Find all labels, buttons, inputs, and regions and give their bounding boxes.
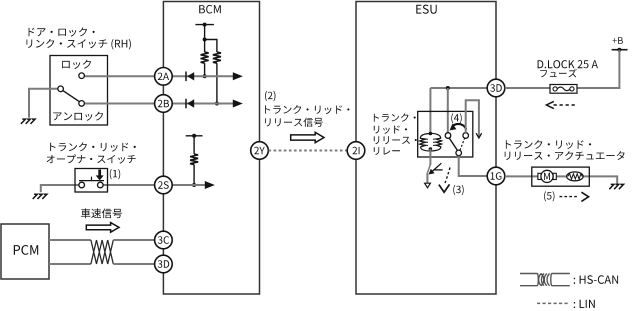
contact: relay right bbox=[463, 133, 469, 139]
twisted pair (HS-CAN) bbox=[91, 240, 113, 264]
driver arrow with bar bbox=[432, 163, 442, 172]
legend label: HS-CAN bbox=[574, 275, 618, 284]
label: D.LOCK 25 A fuse bbox=[538, 60, 598, 68]
wire: 1G to actuator bbox=[505, 175, 538, 177]
label (1) bbox=[110, 169, 120, 179]
wire: relay right contact loop bbox=[466, 100, 479, 137]
diode D2 bbox=[185, 99, 187, 109]
trunk lid release relay box bbox=[418, 111, 473, 157]
junction on 2B line bbox=[215, 102, 219, 106]
push arrow (1) bbox=[98, 170, 101, 176]
door lock link switch box bbox=[50, 56, 108, 126]
ground (opener switch) bbox=[33, 194, 47, 199]
wire: PCM to twist (CAN H) bbox=[49, 239, 91, 241]
terminal 2B (BCM) bbox=[155, 95, 173, 113]
label: BCM bbox=[199, 5, 221, 14]
wire: 3D to relay bbox=[430, 87, 487, 89]
signal arrow on 2A line bbox=[233, 72, 243, 80]
label: door lock link switch (RH) bbox=[29, 27, 95, 36]
wire: opener switch to ground bbox=[41, 185, 79, 192]
wire: actuator to ground bbox=[583, 176, 617, 184]
label: unlock bbox=[53, 112, 103, 121]
contact: relay common bbox=[456, 150, 462, 156]
+B supply bar bbox=[612, 49, 628, 51]
contact: opener right bbox=[98, 182, 104, 188]
terminal 2A (BCM) bbox=[155, 68, 173, 86]
actuator resistor element bbox=[567, 172, 584, 181]
wire: 2Y to 2I (LIN, dashed) bbox=[269, 150, 348, 152]
wire: lock contact to 2A bbox=[85, 75, 155, 77]
label (4) bbox=[451, 113, 461, 123]
wire: 2A line bbox=[172, 75, 233, 77]
terminal 1G (ESU) bbox=[487, 167, 505, 185]
wire: coil to driver bbox=[429, 149, 431, 165]
wire: twist to 3D bbox=[113, 263, 154, 265]
wire: switch common to ground bbox=[29, 89, 58, 118]
legend label: LIN bbox=[574, 300, 595, 308]
PCM box bbox=[1, 224, 49, 279]
terminal 2Y (BCM) bbox=[251, 142, 269, 160]
junction (relay contact feed) bbox=[446, 86, 450, 90]
internal supply bar (2S) bbox=[186, 135, 203, 137]
wire R1 to 2A line bbox=[204, 63, 206, 76]
switch bar bbox=[79, 180, 104, 182]
ground (door lock link switch) bbox=[21, 119, 35, 124]
wire: +B to fuse bbox=[577, 50, 619, 88]
wire: 2B line bbox=[172, 103, 233, 105]
dashed arrow (5) bbox=[560, 196, 580, 198]
contact: relay left bbox=[445, 133, 451, 139]
relay contact lever (closed side) bbox=[449, 138, 457, 150]
label: lock bbox=[62, 60, 91, 69]
resistor R1 bbox=[201, 52, 209, 63]
block arrow: trunk lid release signal bbox=[291, 132, 324, 142]
label (3) bbox=[453, 185, 463, 195]
signal arrow on 2S line bbox=[205, 181, 215, 189]
label: trunk lid release actuator bbox=[506, 140, 591, 149]
resistor R3 bbox=[190, 154, 198, 165]
signal arrow on 2B line bbox=[233, 100, 243, 108]
wire: driver to open triangle bbox=[426, 174, 428, 184]
wire: PCM to twist (CAN L) bbox=[49, 263, 91, 265]
label: vehicle speed signal bbox=[81, 208, 122, 218]
label: trunk lid opener switch bbox=[50, 142, 136, 151]
terminal 3C (BCM) bbox=[155, 231, 173, 249]
junction node bbox=[203, 38, 207, 42]
block arrow: vehicle speed signal bbox=[86, 223, 119, 233]
junction on 2S line bbox=[192, 183, 196, 187]
legend: HS-CAN twisted pair symbol bbox=[520, 274, 570, 286]
wire: opener switch to 2S bbox=[103, 184, 154, 186]
contact: opener left bbox=[79, 182, 85, 188]
relay coil bbox=[420, 133, 442, 151]
relay contact lever (alternate, dashed) bbox=[460, 138, 465, 150]
switch lever (common to unlock) bbox=[63, 91, 80, 102]
ground (actuator) bbox=[609, 184, 623, 189]
wire: down to relay coil bbox=[429, 88, 431, 134]
terminal 3D (BCM) bbox=[155, 255, 173, 273]
fuse F1 bbox=[550, 85, 577, 94]
contact: unlock bbox=[79, 101, 85, 107]
terminal 3D (ESU) bbox=[487, 79, 505, 97]
label: PCM bbox=[14, 245, 38, 255]
wire: motor to resistor bbox=[556, 175, 567, 177]
relay actuation arrow (4) bbox=[453, 124, 466, 130]
internal supply bar (top) bbox=[195, 24, 214, 26]
wire R2 to 2B line bbox=[216, 63, 218, 103]
branch to resistor R2 bbox=[205, 40, 217, 53]
contact: common bbox=[58, 86, 64, 92]
diode D1 bbox=[185, 72, 187, 82]
BCM box bbox=[163, 2, 259, 295]
dashed actuation arrow (3) bbox=[445, 168, 450, 185]
terminal 2I (ESU) bbox=[347, 142, 365, 160]
label (2) trunk lid release signal bbox=[265, 91, 276, 101]
wire: twist to 3C bbox=[113, 239, 154, 241]
dashed arrow (fuse feed) bbox=[554, 104, 578, 106]
wire R3 to 2S line bbox=[193, 165, 195, 185]
motor M bbox=[538, 173, 541, 179]
wire: unlock contact to 2B bbox=[85, 103, 155, 105]
ESU box bbox=[356, 2, 496, 295]
trunk lid release actuator box bbox=[532, 167, 590, 186]
junction on 2A line bbox=[203, 74, 207, 78]
wire: relay common to 1G bbox=[459, 156, 488, 176]
trunk lid opener switch box bbox=[75, 169, 108, 193]
open arrowhead down bbox=[476, 133, 482, 138]
resistor R2 bbox=[213, 52, 221, 63]
label: +B bbox=[613, 37, 623, 44]
wire: 2S line bbox=[172, 184, 205, 186]
open triangle terminator bbox=[425, 183, 431, 188]
label (5) bbox=[544, 191, 554, 201]
legend: LIN dashed line bbox=[537, 302, 568, 304]
label: ESU bbox=[416, 5, 436, 14]
wire to resistor R1 bbox=[204, 40, 206, 53]
wire: fuse to 3D bbox=[505, 87, 550, 89]
terminal 2S (BCM) bbox=[155, 176, 173, 194]
label: trunk lid release relay bbox=[374, 113, 416, 121]
contact: lock bbox=[79, 73, 85, 79]
wire: junction down to relay contact bbox=[447, 88, 449, 133]
